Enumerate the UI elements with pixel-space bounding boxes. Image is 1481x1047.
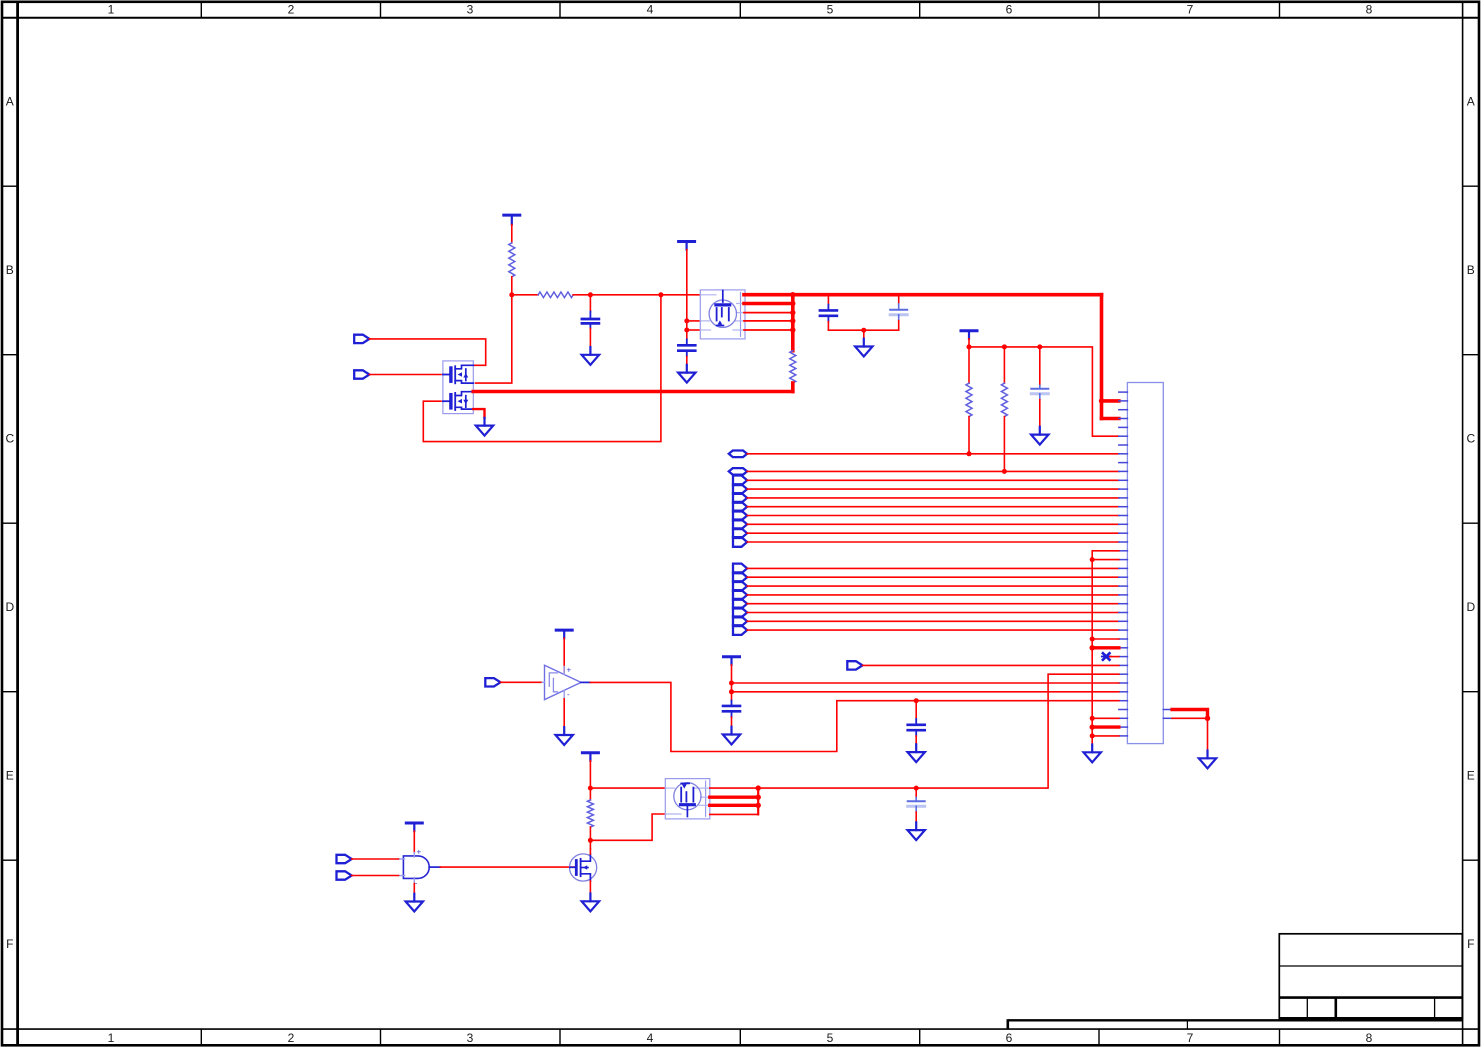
wire	[732, 682, 1119, 684]
wire	[968, 417, 970, 454]
node junction	[729, 689, 734, 694]
thick wire U3 pins	[710, 797, 758, 805]
wire	[512, 294, 538, 296]
wire	[747, 603, 1119, 605]
wire	[1092, 559, 1119, 561]
power VCC P4	[582, 753, 598, 761]
wire	[473, 409, 484, 418]
wire	[747, 585, 1119, 587]
wire	[589, 849, 591, 854]
capacitor C8	[723, 701, 740, 727]
ground G3	[678, 365, 695, 383]
node junction	[1090, 645, 1095, 650]
ground G11	[1084, 745, 1101, 763]
input port P_IN5	[485, 678, 500, 686]
wire	[747, 629, 1119, 631]
wire	[589, 881, 591, 894]
wire	[476, 295, 512, 383]
svg-text:+: +	[417, 848, 422, 857]
node junction	[588, 838, 593, 843]
node junction	[1099, 398, 1104, 403]
wire	[590, 814, 665, 840]
connector J1 right pins	[1163, 710, 1172, 719]
power VCC P5	[556, 630, 572, 638]
power VCC P7	[406, 823, 422, 831]
node junction	[790, 327, 795, 332]
thick wire	[1092, 646, 1119, 649]
ground G10	[1199, 751, 1216, 769]
svg-text:F: F	[1467, 937, 1474, 951]
AND gate U4	[399, 848, 441, 888]
wire	[1207, 718, 1209, 750]
wire	[747, 523, 1119, 525]
MOSFET U2 symbol	[709, 291, 736, 328]
ground G7	[582, 894, 599, 912]
node junction	[756, 795, 761, 800]
column numbers bottom	[108, 1031, 1373, 1045]
wire	[1092, 717, 1119, 719]
svg-text:3: 3	[467, 3, 474, 17]
wire	[511, 225, 513, 243]
no-connect X pin31	[1102, 653, 1111, 660]
ground rail wire	[1092, 551, 1119, 745]
input port PG1-2	[733, 484, 747, 494]
svg-text:+: +	[567, 666, 572, 675]
wire	[423, 295, 661, 442]
wire	[863, 330, 865, 339]
svg-text:A: A	[1467, 95, 1475, 109]
input port PG1-3	[733, 493, 747, 503]
svg-text:E: E	[1467, 769, 1475, 783]
wire	[747, 488, 1119, 490]
wire	[731, 665, 733, 701]
node junction	[1090, 733, 1095, 738]
svg-text:1: 1	[108, 1031, 115, 1045]
wire	[732, 691, 1119, 693]
svg-text:4: 4	[647, 3, 654, 17]
node junction	[914, 786, 919, 791]
wire	[747, 541, 1119, 543]
thick wire right pin37	[1172, 710, 1207, 719]
node junction	[1205, 716, 1210, 721]
capacitor C1	[582, 295, 599, 347]
node junction	[588, 786, 593, 791]
connector J1 left pins	[1119, 392, 1128, 736]
wire	[413, 884, 415, 894]
wire	[369, 339, 485, 365]
title block	[1279, 934, 1462, 1019]
MOSFET U2 pin bar	[740, 293, 742, 337]
wire	[369, 374, 441, 376]
wire	[1092, 638, 1119, 640]
wire	[969, 347, 1119, 436]
wire	[747, 453, 1119, 455]
capacitor C2	[678, 339, 695, 364]
input port P_IN2	[354, 370, 369, 378]
power VCC P2	[679, 242, 695, 250]
input port PG2-7	[733, 617, 747, 627]
input port PG2-1	[733, 564, 747, 574]
node junction	[967, 451, 972, 456]
comparator U5	[541, 665, 591, 699]
wire to connector pin33	[758, 674, 1119, 788]
wire	[352, 875, 399, 877]
node junction	[658, 292, 663, 297]
wire	[573, 294, 700, 296]
svg-text:2: 2	[288, 3, 295, 17]
capacitor C5 polarized	[1031, 347, 1048, 427]
MOSFET U1-A	[443, 365, 473, 383]
wire	[687, 329, 701, 331]
node junction	[1090, 724, 1095, 729]
node junction	[1090, 637, 1095, 642]
svg-text:E: E	[6, 769, 14, 783]
input port PG2-8	[733, 625, 747, 635]
svg-text:6: 6	[1006, 3, 1013, 17]
ground G6	[556, 727, 573, 745]
thick wire net SW	[473, 390, 793, 394]
wire	[589, 761, 591, 800]
svg-text:7: 7	[1187, 3, 1194, 17]
wire	[747, 515, 1119, 517]
wire	[747, 532, 1119, 534]
svg-text:3: 3	[467, 1031, 474, 1045]
wire	[828, 329, 898, 331]
node junction	[1037, 344, 1042, 349]
node junction	[861, 328, 866, 333]
wire	[589, 827, 591, 849]
MOSFET U1-B	[443, 392, 473, 410]
wire	[563, 638, 565, 672]
svg-text:4: 4	[647, 1031, 654, 1045]
ground G2	[476, 418, 493, 436]
node junction	[756, 785, 761, 790]
svg-text:-: -	[567, 690, 570, 699]
input port PG2-3	[733, 581, 747, 591]
resistor R3	[790, 351, 796, 383]
input port P_IN4	[337, 871, 352, 879]
connector J1 body	[1127, 383, 1163, 744]
node junction	[729, 681, 734, 686]
wire	[1092, 735, 1119, 737]
node junction	[790, 310, 795, 315]
wire	[1003, 417, 1005, 472]
MOSFET U2 package	[700, 290, 745, 339]
input port P_IN3	[337, 855, 352, 863]
capacitor C6	[908, 701, 925, 745]
svg-text:B: B	[1467, 263, 1475, 277]
ground G8	[908, 822, 925, 840]
node junction	[684, 328, 689, 333]
svg-text:D: D	[1466, 600, 1475, 614]
capacitor C7 polarized	[908, 788, 925, 822]
MOSFET U3 symbol	[674, 783, 701, 817]
wire	[747, 576, 1119, 578]
wire comparator output	[590, 682, 1119, 751]
input port PG1-8	[733, 537, 747, 547]
input port PG2-6	[733, 608, 747, 618]
wire	[747, 612, 1119, 614]
node junction	[790, 292, 795, 297]
wire	[710, 813, 758, 815]
ground G4	[855, 339, 872, 357]
resistor R6	[587, 800, 593, 827]
wire	[687, 320, 701, 322]
input port PG2-4	[733, 590, 747, 600]
input port PG1-5	[733, 511, 747, 521]
svg-text:C: C	[5, 432, 14, 446]
wire U3 bus	[757, 788, 759, 814]
node junction	[967, 344, 972, 349]
input port P_IN1	[354, 335, 369, 343]
ground G13	[406, 894, 423, 912]
wire right pin38	[1172, 717, 1207, 719]
wire	[686, 250, 688, 340]
bidir port O1	[729, 451, 747, 458]
MOSFET Q3	[570, 854, 597, 881]
input port PG2-5	[733, 599, 747, 609]
row letters left	[5, 95, 14, 952]
capacitor C4 polarized	[890, 295, 907, 331]
node junction	[684, 318, 689, 323]
resistor R2	[538, 292, 573, 298]
wire	[968, 339, 970, 347]
power VCC P1	[504, 215, 520, 225]
resistor R4	[966, 383, 972, 416]
node junction	[1090, 557, 1095, 562]
input port PG1-4	[733, 502, 747, 512]
row letters right	[1466, 95, 1475, 952]
svg-text:-: -	[415, 879, 418, 888]
svg-text:C: C	[1466, 432, 1475, 446]
svg-text:2: 2	[288, 1031, 295, 1045]
wire	[747, 497, 1119, 499]
capacitor C3	[820, 295, 837, 331]
wire	[747, 506, 1119, 508]
MOSFET U3 package	[665, 779, 710, 819]
MOSFET U3 pin bar	[705, 781, 707, 816]
thick wire VIN to connector	[1102, 295, 1119, 419]
wire AND out to Q3 gate	[440, 866, 574, 868]
wire	[352, 858, 399, 860]
wire	[1110, 656, 1119, 658]
power VCC P6	[724, 657, 740, 665]
resistor R5	[1001, 383, 1007, 416]
input port PG1-7	[733, 528, 747, 538]
dual MOSFET U1 package	[443, 361, 473, 414]
input port PG1-6	[733, 520, 747, 530]
svg-text:8: 8	[1366, 3, 1373, 17]
ground G1	[582, 347, 599, 365]
wire	[563, 699, 565, 727]
resistor R1	[509, 243, 515, 277]
wire	[501, 681, 541, 683]
wire	[747, 620, 1119, 622]
svg-text:8: 8	[1366, 1031, 1373, 1045]
svg-text:D: D	[5, 600, 14, 614]
svg-text:5: 5	[827, 1031, 834, 1045]
ground G5	[1031, 427, 1048, 445]
svg-text:F: F	[6, 937, 13, 951]
wire	[511, 277, 513, 295]
thick wire	[791, 383, 795, 392]
node junction	[588, 292, 593, 297]
node junction	[509, 292, 514, 297]
svg-text:6: 6	[1006, 1031, 1013, 1045]
node junction	[1002, 469, 1007, 474]
node junction	[1002, 344, 1007, 349]
revision bar	[1008, 1019, 1463, 1029]
wire	[747, 479, 1119, 481]
wire U3 out	[710, 787, 758, 789]
ground G12	[723, 727, 740, 745]
thick wire U2 drain bus	[744, 295, 1102, 351]
svg-text:7: 7	[1187, 1031, 1194, 1045]
wire	[1003, 347, 1005, 383]
input port PG2-2	[733, 572, 747, 582]
ground G9	[908, 744, 925, 762]
power VCC P3	[961, 331, 977, 339]
wire	[968, 347, 970, 383]
node junction	[914, 698, 919, 703]
svg-text:B: B	[6, 263, 14, 277]
node junction	[790, 318, 795, 323]
wire	[747, 470, 1119, 472]
wire	[590, 787, 665, 789]
column numbers top	[108, 3, 1373, 17]
wire	[863, 664, 1119, 666]
node junction	[790, 301, 795, 306]
node junction	[1090, 716, 1095, 721]
input port PG1-1	[733, 476, 747, 486]
bidir port O2	[729, 468, 747, 475]
svg-text:5: 5	[827, 3, 834, 17]
wire	[747, 594, 1119, 596]
wire	[413, 831, 415, 852]
wire	[747, 567, 1119, 569]
svg-text:1: 1	[108, 3, 115, 17]
input port P_IN6	[847, 661, 862, 669]
thick wire	[1092, 725, 1119, 728]
svg-text:A: A	[6, 95, 14, 109]
node junction	[756, 803, 761, 808]
